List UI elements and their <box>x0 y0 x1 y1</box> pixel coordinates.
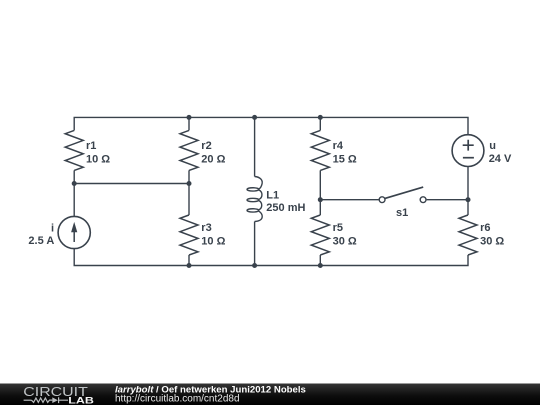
resistor r3 <box>180 215 198 255</box>
junction dot switch left <box>318 197 323 202</box>
footer bar <box>0 384 540 405</box>
svg-text:250 mH: 250 mH <box>266 202 305 214</box>
svg-text:15 Ω: 15 Ω <box>333 154 357 166</box>
logo diode <box>52 397 58 403</box>
junction dot mid r2/r3 <box>187 181 192 186</box>
wire middle (r1 bottom to r2/r3 node) <box>74 183 189 185</box>
svg-text:L1: L1 <box>266 189 279 201</box>
logo wire lead <box>24 399 32 401</box>
junction dot mid left <box>72 181 77 186</box>
svg-text:u: u <box>489 140 496 152</box>
svg-text:20 Ω: 20 Ω <box>201 154 225 166</box>
resistor r4 <box>311 130 329 170</box>
wire right trunk (u bottom to r6 top) <box>467 167 469 215</box>
inductor L1 <box>247 177 262 222</box>
resistor r2 <box>180 130 198 170</box>
svg-text:r5: r5 <box>333 222 343 234</box>
svg-text:24 V: 24 V <box>489 153 512 165</box>
svg-text:10 Ω: 10 Ω <box>86 154 110 166</box>
wire r4/r5 trunk leads <box>319 117 321 265</box>
junction dot bottom r5 <box>318 263 323 268</box>
svg-text:30 Ω: 30 Ω <box>333 235 357 247</box>
junction dot bottom L1 <box>252 263 257 268</box>
switch s1 <box>379 187 426 203</box>
svg-text:r3: r3 <box>201 222 211 234</box>
svg-text:r2: r2 <box>201 140 211 152</box>
resistor r1 <box>65 130 83 170</box>
voltage source u <box>452 135 484 167</box>
resistor r6 <box>459 215 477 255</box>
wire source i lead <box>73 184 75 217</box>
svg-text:i: i <box>51 223 54 235</box>
wire left trunk (r1 lead) <box>73 170 75 183</box>
svg-text:s1: s1 <box>396 207 408 219</box>
junction dot switch right <box>466 197 471 202</box>
svg-text:r1: r1 <box>86 140 96 152</box>
resistor r5 <box>311 215 329 255</box>
wire L1 leads <box>254 117 256 265</box>
svg-text:LAB: LAB <box>68 396 94 405</box>
wire switch row left segment <box>320 199 379 201</box>
logo resistor zigzag <box>32 398 53 402</box>
svg-text:r4: r4 <box>333 140 344 152</box>
junction dot bottom r3 <box>187 263 192 268</box>
junction dot top r2 <box>187 115 192 120</box>
current source i <box>58 216 90 248</box>
wire bottom bus <box>74 249 468 266</box>
wire top bus <box>74 117 468 134</box>
wire r2/r3 trunk leads <box>188 117 190 265</box>
wire switch row right segment <box>427 199 468 201</box>
svg-text:2.5 A: 2.5 A <box>28 235 54 247</box>
junction dot top r4 <box>318 115 323 120</box>
svg-text:10 Ω: 10 Ω <box>201 235 225 247</box>
svg-text:30 Ω: 30 Ω <box>480 235 504 247</box>
svg-text:r6: r6 <box>480 222 490 234</box>
svg-text:http://circuitlab.com/cnt2d8d: http://circuitlab.com/cnt2d8d <box>115 393 240 404</box>
junction dot top L1 <box>252 115 257 120</box>
